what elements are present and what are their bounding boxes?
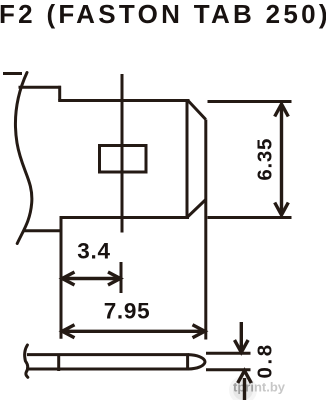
dimension 0.8 lower arrow	[238, 371, 252, 400]
center line lower tick	[120, 262, 123, 293]
bottom chamfer edge	[188, 200, 206, 217]
dimension 0.8 upper arrow	[235, 322, 249, 352]
dimension 6.35 arrow line	[275, 104, 289, 215]
chamfer fold vertical	[186, 99, 189, 216]
tab base bottom edge	[24, 229, 63, 232]
0.8 top extension line	[206, 352, 251, 355]
side view divider tick	[57, 354, 60, 372]
svg-text:7.95: 7.95	[104, 299, 151, 324]
blade nose vertical	[186, 353, 189, 370]
battery lid edge line	[3, 72, 22, 75]
svg-text:F2 (FASTON TAB 250): F2 (FASTON TAB 250)	[0, 0, 326, 29]
left extension line (x=61)	[60, 216, 63, 339]
tab base top edge	[19, 86, 62, 89]
watermark logo blob	[229, 376, 257, 400]
tip edge and right extension line	[204, 120, 207, 340]
blade top edge	[58, 99, 189, 102]
center line	[121, 74, 124, 233]
dimension 3.4 arrow line	[62, 272, 120, 285]
latch hole	[100, 146, 147, 173]
blade nose tip	[189, 355, 206, 369]
tab base step top vertical	[58, 86, 61, 101]
svg-text:0.8: 0.8	[254, 342, 277, 378]
svg-text:3.4: 3.4	[77, 239, 110, 264]
0.8 bottom extension line	[206, 368, 251, 371]
6.35 top extension line	[208, 100, 292, 103]
svg-text:6.35: 6.35	[254, 138, 277, 181]
side view bottom edge	[27, 368, 189, 371]
break line (side view)	[25, 345, 28, 377]
blade bottom edge	[60, 216, 190, 219]
break line (front view)	[15, 73, 31, 244]
svg-text:tprint.by: tprint.by	[233, 380, 286, 395]
side view top edge	[27, 353, 189, 356]
top chamfer edge	[188, 100, 206, 120]
6.35 bottom extension line	[208, 216, 292, 219]
dimension 7.95 arrow line	[62, 325, 205, 338]
